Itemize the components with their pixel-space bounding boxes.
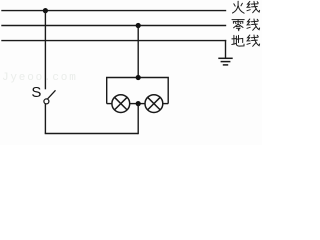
wire neutral bus (lingxian) xyxy=(2,25,226,27)
svg-text:S: S xyxy=(31,84,41,101)
wire left stub to lamp L1 xyxy=(107,103,112,105)
label huoxian (live wire) xyxy=(233,1,260,13)
wire live bus (huoxian) xyxy=(2,10,226,12)
wire from live bus down to switch xyxy=(44,11,46,90)
label dixian (earth wire) xyxy=(232,35,260,46)
ground xyxy=(218,58,232,65)
wire earth bus (dixian) xyxy=(2,40,226,42)
wire mid drop from lamp junction to bottom wire xyxy=(137,104,139,135)
node junction on neutral bus xyxy=(136,23,141,28)
wire top bar of parallel lamps xyxy=(107,78,169,104)
wire bottom return xyxy=(45,133,139,135)
node junction on live bus xyxy=(43,8,48,13)
lamp L2 xyxy=(145,95,163,113)
wire between lamps xyxy=(130,103,145,105)
wire right stub from lamp L2 xyxy=(163,103,168,105)
wire from switch down to bottom wire xyxy=(44,104,46,134)
lamp L1 xyxy=(112,95,130,113)
node junction top bar xyxy=(136,75,141,80)
node junction between lamps xyxy=(136,101,141,106)
svg-text:Jyeoo.com: Jyeoo.com xyxy=(2,72,78,84)
switch S xyxy=(31,84,55,104)
wire earth drop to ground xyxy=(225,41,227,59)
label lingxian (neutral wire) xyxy=(232,19,260,31)
wire neutral down to lamp bar xyxy=(137,26,139,78)
